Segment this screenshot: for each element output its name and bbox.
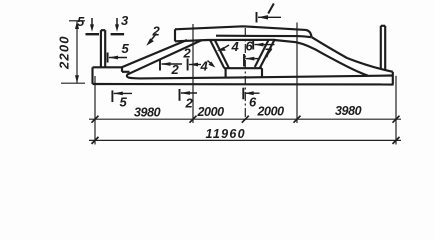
- svg-text:2: 2: [171, 62, 180, 77]
- svg-text:2: 2: [183, 46, 192, 61]
- svg-text:5: 5: [77, 14, 85, 29]
- svg-text:6: 6: [246, 39, 254, 54]
- svg-text:5: 5: [120, 95, 128, 110]
- svg-text:2: 2: [152, 24, 161, 39]
- svg-text:11960: 11960: [206, 127, 246, 141]
- svg-text:7: 7: [265, 46, 273, 61]
- svg-text:2000: 2000: [257, 105, 285, 119]
- svg-text:6: 6: [249, 95, 257, 110]
- svg-text:2200: 2200: [57, 35, 72, 70]
- svg-text:3980: 3980: [134, 106, 161, 120]
- svg-text:2: 2: [185, 96, 194, 111]
- svg-text:5: 5: [122, 41, 130, 56]
- svg-text:2000: 2000: [197, 105, 225, 119]
- svg-text:3: 3: [121, 13, 129, 28]
- svg-text:3980: 3980: [335, 104, 362, 118]
- svg-text:4: 4: [231, 39, 240, 54]
- svg-text:4: 4: [200, 59, 209, 74]
